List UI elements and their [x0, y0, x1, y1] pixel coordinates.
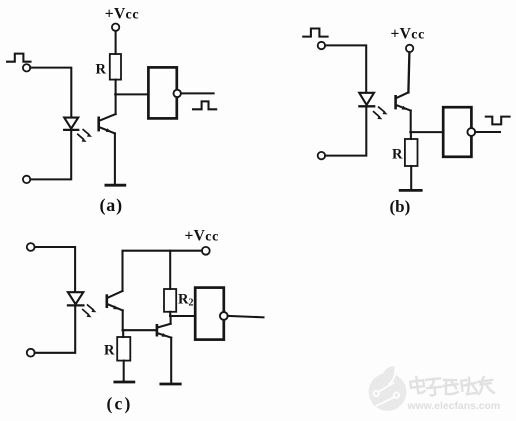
output wire (a) [181, 92, 214, 94]
inverter gate U2 (b) [443, 107, 471, 157]
light arrows (b) [374, 107, 388, 119]
input terminal bottom (c) [27, 349, 35, 357]
resistor R4 value R2 (c) [164, 289, 176, 312]
wire LED cathode to bottom terminal (b) [325, 107, 366, 156]
wire input to LED anode (c) [35, 247, 76, 292]
LED D3 (c) [68, 292, 84, 305]
Vcc terminal (b) [406, 45, 413, 52]
output wire (c) [228, 316, 264, 317]
wire input to LED anode (b) [325, 45, 366, 92]
output pulse symbol (b) [486, 117, 510, 125]
output bubble U2 (b) [467, 128, 475, 136]
watermark text dianzifashaoyou [410, 376, 494, 396]
light arrows (a) [78, 130, 92, 142]
ground (a) [106, 184, 125, 187]
output wire (b) [475, 131, 500, 133]
node emitter-gate (b) [409, 131, 412, 134]
transistor Q4 (c) [157, 324, 171, 338]
svg-text:(b): (b) [390, 197, 411, 216]
watermark logo traces [374, 368, 399, 405]
svg-text:+Vcc: +Vcc [105, 6, 139, 23]
LED D2 (b) [359, 93, 374, 107]
wire node to R (c) [122, 330, 124, 337]
wire Vcc to R (a) [115, 31, 117, 54]
ground (b) [400, 189, 421, 192]
input terminal top (c) [27, 243, 35, 251]
collector wire (b) [408, 52, 409, 92]
wire input to LED anode (a) [30, 68, 71, 118]
inverter gate U3 (c) [195, 288, 224, 340]
input terminal (a) [23, 64, 30, 71]
wire R to ground (c) [123, 361, 125, 382]
Vcc terminal (a) [112, 24, 119, 31]
phototransistor Q2 (b) [396, 92, 411, 110]
svg-text:R: R [104, 343, 115, 359]
wire rail to R2 (c) [169, 251, 171, 289]
wire LED cathode to bottom terminal (a) [30, 130, 71, 179]
wire node to gate input (b) [411, 131, 444, 133]
bottom terminal (b) [318, 152, 325, 159]
svg-text:(a): (a) [100, 195, 123, 216]
node collector-gate (c) [169, 315, 172, 318]
resistor R3 (c) [117, 337, 130, 361]
input terminal (b) [318, 42, 325, 49]
wire node to R (b) [410, 132, 412, 139]
wire node to gate input (a) [116, 93, 149, 95]
wire R to node (a) [115, 80, 117, 95]
svg-text:R: R [392, 147, 403, 163]
ground right (c) [161, 383, 181, 386]
svg-text:+Vcc: +Vcc [185, 228, 219, 245]
Q4 collector wire (c) [170, 316, 172, 324]
wire node to gate input (c) [171, 315, 196, 317]
Vcc terminal (c) [202, 247, 210, 255]
wire node to collector (a) [115, 94, 117, 114]
svg-text:R: R [96, 62, 107, 78]
Vcc rail wire (c) [123, 251, 202, 291]
bottom terminal (a) [23, 176, 30, 183]
resistor R1 (a) [110, 54, 121, 80]
phototransistor Q1 (a) [99, 114, 116, 133]
inverter gate U1 (a) [148, 67, 176, 118]
wire R to ground (b) [410, 166, 412, 190]
emitter wire (a) [114, 133, 116, 184]
svg-text:(c): (c) [107, 394, 133, 414]
svg-text:R2: R2 [178, 292, 193, 309]
output bubble U1 (a) [174, 90, 181, 97]
output bubble U3 (c) [220, 312, 228, 320]
phototransistor Q3 (c) [107, 291, 123, 310]
wire R2 to node (c) [169, 312, 171, 316]
ground left (c) [115, 381, 134, 384]
emitter wire (c) [122, 310, 124, 330]
light arrows (c) [83, 305, 97, 317]
node emitter-base (c) [121, 329, 124, 332]
resistor R2 (b) [405, 139, 418, 166]
input pulse symbol (b) [303, 29, 327, 37]
svg-text:+Vcc: +Vcc [391, 26, 425, 43]
node collector-gate (a) [114, 93, 117, 96]
wire LED cathode to bottom terminal (c) [35, 306, 75, 353]
wire node to Q4 base (c) [123, 329, 156, 331]
svg-text:www.elecfans.com: www.elecfans.com [407, 401, 501, 412]
emitter wire (b) [410, 111, 412, 133]
Q4 emitter wire (c) [170, 338, 172, 384]
input pulse symbol (a) [7, 54, 31, 62]
output pulse symbol (a) [193, 101, 216, 109]
watermark logo circle [369, 366, 407, 410]
LED D1 (a) [64, 118, 78, 130]
